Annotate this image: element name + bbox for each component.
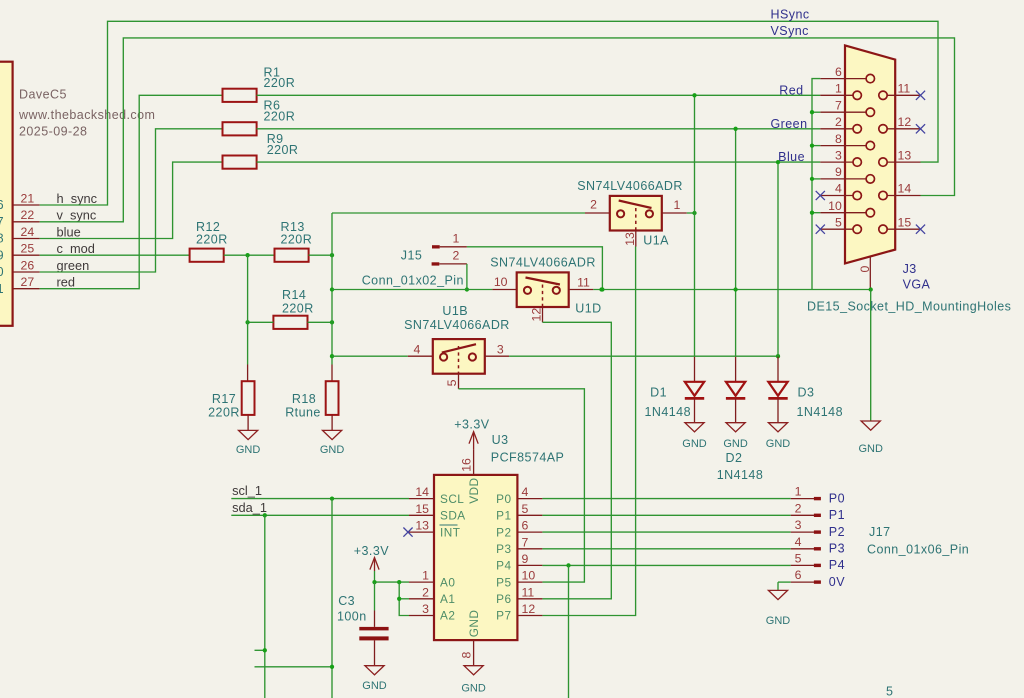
wire sda vertical — [264, 515, 266, 698]
svg-text:R17: R17 — [212, 392, 236, 406]
svg-text:v_sync: v_sync — [57, 208, 97, 223]
svg-text:9: 9 — [522, 552, 529, 566]
svg-text:GND: GND — [236, 444, 261, 456]
svg-text:220R: 220R — [281, 233, 313, 247]
pin 22 — [13, 221, 40, 223]
wire R1 to VGA pin1 (Red) — [257, 94, 821, 96]
svg-text:h_sync: h_sync — [57, 191, 98, 206]
ground D1 — [685, 423, 704, 432]
wire P3 to J17 — [542, 548, 790, 550]
junction R14 right — [330, 320, 334, 324]
resistor R14 — [273, 316, 307, 329]
U3 pin 12 P7 — [517, 615, 542, 617]
svg-text:SCL: SCL — [440, 492, 464, 506]
svg-text:1: 1 — [0, 282, 4, 296]
U3 pin 15 SDA — [409, 514, 434, 516]
svg-text:220R: 220R — [196, 233, 228, 247]
svg-text:P4: P4 — [829, 558, 845, 572]
wire A1 A2 tie — [399, 582, 409, 615]
wire P4 to J17 — [542, 564, 790, 566]
U3 pin 6 P2 — [517, 531, 542, 533]
ground D3 — [768, 423, 787, 432]
svg-text:26: 26 — [21, 258, 35, 272]
junction +3.3V — [372, 580, 376, 584]
wire U1A pin1 out — [687, 212, 695, 214]
wire Green node vertical to D2 — [735, 129, 737, 357]
svg-text:1: 1 — [795, 485, 802, 499]
svg-text:Conn_01x02_Pin: Conn_01x02_Pin — [362, 274, 464, 288]
switch U1B — [408, 355, 433, 357]
svg-text:1N4148: 1N4148 — [797, 405, 844, 419]
svg-text:220R: 220R — [282, 302, 314, 316]
svg-text:15: 15 — [898, 215, 912, 229]
svg-text:1: 1 — [452, 231, 459, 245]
svg-text:10: 10 — [494, 275, 508, 289]
resistor R9 — [223, 156, 257, 169]
svg-text:P3: P3 — [496, 542, 511, 556]
svg-text:SN74LV4066ADR: SN74LV4066ADR — [577, 179, 683, 193]
svg-text:SN74LV4066ADR: SN74LV4066ADR — [490, 256, 596, 270]
svg-text:P0: P0 — [496, 492, 511, 506]
svg-text:P0: P0 — [829, 491, 845, 505]
connector J3 VGA DE15 — [845, 45, 895, 263]
svg-text:3: 3 — [835, 148, 842, 162]
svg-text:C3: C3 — [338, 594, 355, 608]
J15 pin 1 — [432, 245, 440, 248]
svg-text:P7: P7 — [496, 609, 511, 623]
U3 pin 3 A2 — [409, 615, 434, 617]
svg-text:100n: 100n — [337, 609, 367, 623]
diode D3 1N4148 — [777, 357, 779, 382]
wire VGA ground chain — [812, 79, 820, 290]
pin 21 — [13, 204, 40, 206]
svg-text:3: 3 — [422, 602, 429, 616]
svg-text:6: 6 — [522, 519, 529, 533]
svg-text:P1: P1 — [496, 509, 511, 523]
junction sda — [263, 513, 267, 517]
J3 shield pin 0 — [869, 257, 871, 290]
svg-text:220R: 220R — [208, 406, 240, 420]
U3 pin 4 P0 — [517, 498, 542, 500]
pin 25 — [13, 254, 40, 256]
U3 INT no-connect — [403, 528, 412, 537]
svg-text:9: 9 — [0, 248, 4, 262]
svg-text:12: 12 — [522, 602, 536, 616]
wire node B vertical — [331, 213, 333, 365]
J3 no-connect pins 4 5 — [816, 191, 825, 200]
U3 pin 5 P1 — [517, 514, 542, 516]
svg-text:0: 0 — [858, 266, 872, 273]
svg-text:+3.3V: +3.3V — [354, 544, 389, 558]
svg-text:5: 5 — [445, 379, 459, 386]
wire 0V gnd — [777, 582, 779, 590]
svg-text:Green: Green — [771, 117, 808, 131]
svg-text:A1: A1 — [440, 592, 455, 606]
junction U1A out — [692, 211, 696, 215]
svg-text:10: 10 — [522, 569, 536, 583]
U3 pin 7 P3 — [517, 548, 542, 550]
svg-text:GND: GND — [723, 438, 748, 450]
switch U1A — [585, 212, 610, 214]
junction R14 left — [245, 320, 249, 324]
ground J3 — [861, 421, 880, 430]
wire HSync net — [40, 21, 938, 205]
junction gnd pin10 — [810, 211, 814, 215]
svg-text:11: 11 — [522, 585, 535, 599]
svg-text:R18: R18 — [292, 392, 316, 406]
svg-text:5: 5 — [522, 502, 529, 516]
wire shield to gnd — [870, 290, 872, 422]
junction scl — [330, 496, 334, 500]
svg-text:3: 3 — [795, 518, 802, 532]
J3 pin 1 — [820, 94, 853, 96]
power +3.3V U3 — [469, 432, 478, 444]
svg-text:4: 4 — [522, 485, 529, 499]
wire R18 to gnd — [331, 415, 333, 431]
svg-text:15: 15 — [415, 502, 429, 516]
svg-text:A0: A0 — [440, 575, 455, 589]
svg-text:GND: GND — [766, 438, 791, 450]
svg-text:U1B: U1B — [442, 304, 468, 318]
svg-text:D2: D2 — [726, 451, 743, 465]
svg-text:11: 11 — [577, 275, 590, 289]
svg-text:11: 11 — [898, 82, 911, 96]
wire Blue node vertical to D3 — [777, 162, 779, 357]
svg-text:2025-09-28: 2025-09-28 — [19, 125, 87, 139]
U3 pin 10 P5 — [517, 581, 542, 583]
junction Red wire — [692, 93, 696, 97]
svg-text:SDA: SDA — [440, 509, 466, 523]
svg-text:8: 8 — [0, 232, 4, 246]
svg-text:7: 7 — [522, 535, 529, 549]
svg-text:P1: P1 — [829, 508, 845, 522]
J15 pin 2 — [432, 262, 440, 265]
resistor R6 — [223, 122, 257, 135]
J17 pin 6 0V — [791, 581, 814, 583]
J3 pin 2 — [820, 128, 853, 130]
junction U1D out — [599, 287, 603, 291]
svg-text:14: 14 — [898, 182, 912, 196]
svg-text:16: 16 — [460, 458, 474, 472]
svg-text:scl_1: scl_1 — [232, 483, 262, 498]
svg-text:6: 6 — [835, 65, 842, 79]
diode D2 1N4148 — [735, 357, 737, 382]
pin 27 — [13, 288, 40, 290]
J3 pin 5 — [820, 228, 853, 230]
resistor R1 — [223, 89, 257, 102]
J3 pin 8 — [820, 145, 866, 147]
ground U3 — [464, 666, 483, 675]
svg-text:9: 9 — [835, 165, 842, 179]
wire red to R1 — [40, 95, 223, 288]
svg-text:VDD: VDD — [467, 478, 481, 504]
J17 pin 2 P1 — [791, 514, 814, 516]
svg-text:1: 1 — [422, 569, 429, 583]
wire c_mod to R12 — [40, 254, 190, 256]
svg-text:25: 25 — [21, 242, 35, 256]
svg-text:0V: 0V — [829, 575, 845, 589]
ground R17 — [239, 430, 258, 439]
svg-text:1N4148: 1N4148 — [645, 405, 692, 419]
svg-text:INT: INT — [440, 525, 460, 539]
U3 pin 13 INT — [409, 531, 434, 533]
wire 0V to J17 — [778, 581, 791, 583]
svg-text:J15: J15 — [401, 249, 423, 263]
svg-text:U1D: U1D — [575, 302, 601, 316]
svg-text:green: green — [57, 258, 90, 273]
wire P0 to J17 — [542, 498, 790, 500]
svg-text:13: 13 — [415, 519, 429, 533]
svg-text:GND: GND — [467, 610, 481, 638]
svg-text:P3: P3 — [829, 542, 845, 556]
wire U1D pin11 out to VGA gnd — [593, 289, 870, 291]
wire P1 to J17 — [542, 514, 790, 516]
wire P4 down — [568, 565, 570, 698]
R17 top pin — [247, 365, 249, 382]
junction U1B out at D3 — [776, 354, 780, 358]
svg-text:2: 2 — [835, 115, 842, 129]
junction node B U1B row — [330, 354, 334, 358]
svg-text:sda_1: sda_1 — [232, 500, 267, 515]
svg-text:22: 22 — [21, 208, 35, 222]
svg-text:8: 8 — [835, 132, 842, 146]
svg-text:P4: P4 — [496, 559, 511, 573]
J3 pin 14 — [887, 195, 920, 197]
J3 pin 15 — [887, 228, 920, 230]
wire R13 out — [309, 254, 332, 256]
svg-text:blue: blue — [57, 224, 81, 239]
ground C3 — [365, 666, 384, 675]
svg-text:3: 3 — [497, 342, 504, 356]
R18 top pin — [331, 365, 333, 382]
junction bottom — [330, 665, 334, 669]
capacitor C3 100n — [374, 611, 376, 627]
U3 pin 14 SCL — [409, 498, 434, 500]
wire node A vertical — [247, 255, 249, 364]
svg-text:red: red — [57, 275, 76, 290]
svg-text:1: 1 — [835, 82, 842, 96]
svg-text:10: 10 — [828, 199, 842, 213]
wire R14 right — [308, 321, 333, 323]
U3 pin 11 P6 — [517, 598, 542, 600]
svg-text:13: 13 — [623, 232, 637, 246]
svg-text:U3: U3 — [492, 433, 509, 447]
svg-text:5: 5 — [886, 685, 893, 698]
svg-text:12: 12 — [530, 308, 544, 322]
ground D2 — [726, 423, 745, 432]
svg-text:14: 14 — [415, 485, 429, 499]
svg-text:D1: D1 — [650, 386, 667, 400]
svg-text:Conn_01x06_Pin: Conn_01x06_Pin — [867, 543, 969, 557]
svg-text:P2: P2 — [829, 525, 845, 539]
J17 pin 4 P3 — [791, 548, 814, 550]
wire scl vertical — [331, 499, 333, 698]
svg-text:2: 2 — [422, 585, 429, 599]
svg-text:4: 4 — [413, 343, 420, 357]
junction R12-R13 — [245, 253, 249, 257]
svg-text:GND: GND — [682, 438, 707, 450]
junction J15 pin2 — [465, 287, 469, 291]
svg-text:GND: GND — [461, 683, 486, 695]
svg-text:21: 21 — [21, 191, 35, 205]
junction gnd pin7 — [810, 110, 814, 114]
svg-text:7: 7 — [0, 215, 4, 229]
svg-text:Rtune: Rtune — [285, 406, 321, 420]
svg-text:1: 1 — [674, 198, 681, 212]
wire J15 pin2 down — [466, 264, 468, 290]
wire U1A pin13 control to P7 — [635, 231, 637, 247]
svg-text:U1A: U1A — [643, 233, 669, 247]
junction shield — [869, 287, 873, 291]
svg-text:0: 0 — [0, 265, 4, 279]
switch U1D — [492, 289, 516, 291]
J17 pin 1 P0 — [791, 498, 814, 500]
wire sda — [231, 514, 409, 516]
svg-text:220R: 220R — [264, 110, 296, 124]
svg-text:DE15_Socket_HD_MountingHoles: DE15_Socket_HD_MountingHoles — [807, 300, 1011, 314]
wire green to R6 — [40, 129, 223, 272]
svg-text:GND: GND — [858, 443, 883, 455]
J3 pin 9 — [820, 178, 866, 180]
svg-text:SN74LV4066ADR: SN74LV4066ADR — [404, 318, 510, 332]
J3 pin 13 — [887, 161, 920, 163]
resistor R18 — [326, 381, 339, 415]
U3 pin 2 A1 — [409, 598, 434, 600]
wire bottom horizontal — [255, 666, 333, 668]
wire R12-R13 — [224, 254, 275, 256]
diode D1 1N4148 — [694, 357, 696, 382]
junction A1 — [397, 597, 401, 601]
U3 pin 1 A0 — [409, 581, 434, 583]
J3 pin 3 — [820, 161, 853, 163]
svg-text:J17: J17 — [869, 525, 891, 539]
svg-text:www.thebackshed.com: www.thebackshed.com — [18, 108, 155, 122]
J3 no-connect pins 11 12 15 — [916, 91, 925, 100]
svg-text:8: 8 — [460, 652, 474, 659]
junction gnd pin9 — [810, 177, 814, 181]
svg-text:GND: GND — [766, 615, 791, 627]
junction D2 at U1D row — [733, 287, 737, 291]
svg-text:5: 5 — [795, 551, 802, 565]
resistor R12 — [190, 249, 224, 262]
J17 pin 3 P2 — [791, 531, 814, 533]
svg-text:P6: P6 — [496, 592, 511, 606]
J3 pin 12 — [887, 128, 920, 130]
svg-text:4: 4 — [835, 182, 842, 196]
wire scl — [231, 498, 409, 500]
wire U1B row — [332, 355, 408, 357]
U3 pin 9 P4 — [517, 564, 542, 566]
svg-text:12: 12 — [898, 115, 912, 129]
wire U1B pin5 control to P5 — [458, 373, 460, 389]
wire U1D row — [332, 289, 492, 291]
J17 pin 5 P4 — [791, 564, 814, 566]
svg-text:220R: 220R — [267, 143, 299, 157]
J3 pin 4 — [820, 195, 853, 197]
svg-text:VSync: VSync — [771, 24, 809, 38]
resistor R17 — [242, 381, 255, 415]
wire to U1A pin2 — [332, 212, 585, 214]
wire C3 top — [374, 582, 376, 610]
wire R6 to VGA pin2 (Green) — [257, 128, 821, 130]
ground R18 — [323, 430, 342, 439]
junction R13 out — [330, 253, 334, 257]
U3 GND pin 8 — [473, 640, 475, 666]
svg-text:c_mod: c_mod — [57, 241, 95, 256]
svg-text:1N4148: 1N4148 — [717, 468, 764, 482]
J3 pin 10 — [820, 212, 866, 214]
J3 pin 6 — [820, 78, 866, 80]
wire blue to R9 — [40, 162, 223, 238]
wire J15 pin1 down — [467, 247, 603, 290]
U3 VDD pin 16 — [473, 450, 475, 475]
IC U? (left edge, partial) — [0, 62, 13, 326]
svg-text:PCF8574AP: PCF8574AP — [491, 450, 565, 464]
junction Green wire — [733, 127, 737, 131]
resistor R13 — [275, 249, 309, 262]
svg-text:13: 13 — [898, 148, 912, 162]
svg-text:A2: A2 — [440, 609, 455, 623]
svg-text:7: 7 — [835, 98, 842, 112]
svg-text:2: 2 — [452, 248, 459, 262]
ground J17 — [768, 590, 787, 599]
pin 26 — [13, 271, 40, 273]
junction J15 pin1 — [600, 287, 604, 291]
svg-text:D3: D3 — [798, 386, 815, 400]
svg-text:+3.3V: +3.3V — [454, 417, 489, 431]
wire A0 tie — [375, 581, 410, 583]
junction P4 — [566, 563, 570, 567]
svg-text:DaveC5: DaveC5 — [19, 88, 67, 102]
svg-text:P5: P5 — [496, 575, 511, 589]
wire U1D pin12 control to P6 — [542, 307, 544, 323]
svg-text:R14: R14 — [282, 288, 306, 302]
junction A0 — [397, 580, 401, 584]
svg-text:Blue: Blue — [778, 150, 805, 164]
svg-text:VGA: VGA — [903, 278, 931, 292]
junction stub y650 — [263, 648, 267, 652]
svg-text:J3: J3 — [903, 262, 917, 276]
svg-text:6: 6 — [0, 198, 4, 212]
junction node B U1D row — [330, 287, 334, 291]
svg-text:2: 2 — [590, 198, 597, 212]
svg-text:2: 2 — [795, 501, 802, 515]
J3 pin 11 — [887, 94, 920, 96]
svg-text:5: 5 — [835, 215, 842, 229]
svg-text:P2: P2 — [496, 525, 511, 539]
wire P2 to J17 — [542, 531, 790, 533]
svg-text:GND: GND — [362, 680, 387, 692]
svg-text:6: 6 — [795, 568, 802, 582]
wire VSync net — [40, 38, 955, 222]
pin 24 — [13, 238, 40, 240]
svg-text:27: 27 — [21, 275, 35, 289]
svg-text:HSync: HSync — [771, 8, 810, 22]
svg-text:220R: 220R — [264, 76, 296, 90]
wire R14 left — [248, 321, 274, 323]
wire R17 to gnd — [247, 415, 249, 431]
wire U1B pin3 out — [509, 355, 778, 357]
wire Red node vertical to D1 — [694, 95, 696, 357]
IC U3 PCF8574AP — [434, 475, 517, 640]
svg-text:4: 4 — [795, 535, 802, 549]
junction gnd pin8 — [810, 143, 814, 147]
svg-text:24: 24 — [21, 225, 35, 239]
junction Blue wire — [776, 160, 780, 164]
wire R9 to VGA pin3 (Blue) — [257, 161, 821, 163]
svg-text:Red: Red — [779, 83, 803, 97]
wire stub y650 — [255, 649, 265, 651]
